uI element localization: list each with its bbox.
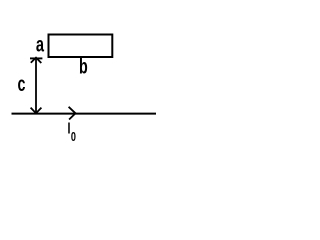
svg-text:c: c [18,72,26,95]
svg-text:0: 0 [71,130,76,144]
svg-text:b: b [79,55,88,78]
svg-text:a: a [36,32,45,57]
svg-text:I: I [68,120,71,137]
